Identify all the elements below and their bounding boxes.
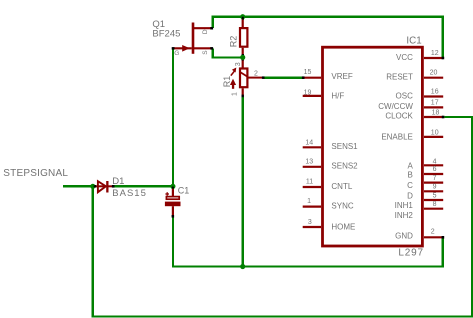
svg-text:2: 2 (254, 70, 258, 77)
svg-text:5: 5 (433, 192, 437, 199)
potentiometer R1 (trimmer) (230, 58, 265, 97)
svg-text:SENS1: SENS1 (331, 142, 358, 151)
svg-text:R2: R2 (229, 36, 239, 48)
diode D1 BAS15 (94, 181, 115, 193)
node junction R2 bottom / R1 top / Q1 source (240, 55, 245, 60)
svg-text:R1: R1 (222, 76, 232, 88)
svg-text:14: 14 (305, 139, 313, 146)
svg-text:1: 1 (307, 198, 311, 205)
pin contact VCC (442, 57, 445, 60)
wire C1 bottom along ground rail up to IC1 GND pin 2 (173, 218, 443, 267)
svg-text:HOME: HOME (331, 222, 355, 231)
wire Q1 source to R2/R1 junction (213, 48, 243, 57)
wire Q1 gate down to STEPSIGNAL node (172, 48, 174, 186)
svg-text:8: 8 (433, 201, 437, 208)
pin contact CLOCK (442, 116, 445, 119)
svg-text:BF245: BF245 (152, 29, 180, 40)
svg-text:CW/CCW: CW/CCW (378, 102, 413, 111)
IC1 left pin numbers (304, 69, 314, 226)
pin contact VREF (302, 76, 305, 79)
svg-text:D: D (407, 191, 413, 200)
svg-text:ENABLE: ENABLE (381, 133, 413, 142)
svg-text:G: G (174, 50, 179, 57)
svg-text:13: 13 (305, 159, 313, 166)
pin contact GND (442, 236, 445, 239)
svg-text:VCC: VCC (396, 53, 413, 62)
IC U1 body (IC1 L297) (323, 47, 423, 246)
IC1 left pin names (331, 72, 358, 231)
svg-text:GND: GND (395, 231, 413, 240)
node junction at C1 top / Q1 gate (170, 184, 175, 189)
svg-text:6: 6 (433, 166, 437, 173)
svg-text:16: 16 (431, 89, 439, 96)
svg-text:IC1: IC1 (406, 36, 421, 47)
node junction ground rail / R1 pin 1 (240, 264, 245, 269)
svg-text:3: 3 (308, 219, 312, 226)
svg-text:CLOCK: CLOCK (385, 111, 413, 120)
svg-text:1: 1 (231, 92, 238, 96)
IC1 right pin names (378, 53, 413, 240)
svg-text:OSC: OSC (396, 92, 414, 101)
svg-text:18: 18 (432, 110, 440, 117)
svg-text:SENS2: SENS2 (331, 162, 358, 171)
svg-text:SYNC: SYNC (331, 202, 353, 211)
wire R1 pin 1 down to ground rail (242, 96, 244, 266)
wire STEPSIGNAL to D1 anode (63, 185, 95, 187)
svg-text:L297: L297 (398, 248, 423, 259)
svg-text:10: 10 (431, 129, 439, 136)
svg-text:3: 3 (235, 62, 242, 66)
svg-text:15: 15 (304, 69, 312, 76)
svg-text:B: B (408, 171, 413, 180)
svg-text:D1: D1 (112, 176, 124, 187)
wire D1 cathode to node at C1 top (114, 185, 173, 187)
svg-text:11: 11 (306, 179, 313, 186)
IC1 right pin stubs: VCC 12, RESET 20, OSC 16, CW/CCW 17, CLOCK 18, ENABLE 10, A 4, B 6, C 7, D 9, INH1 5, INH2 8, GND 2 (424, 58, 443, 237)
svg-text:D: D (202, 29, 209, 34)
capacitor C1 (polarized) (165, 188, 181, 218)
wire Q1 drain to top rail to IC1 VCC pin 12 (213, 17, 443, 58)
svg-text:12: 12 (431, 50, 439, 57)
IC1 right pin numbers (430, 50, 440, 236)
svg-text:BAS15: BAS15 (112, 188, 147, 199)
wire R1 wiper pin 2 to IC1 VREF pin 15 (264, 77, 303, 79)
svg-text:STEPSIGNAL: STEPSIGNAL (3, 168, 68, 179)
svg-text:4: 4 (433, 158, 437, 165)
IC1 left pin stubs: VREF 15, H/F 19, SENS1 14, SENS2 13, CNTL 11, SYNC 1, HOME 3 (303, 78, 321, 227)
svg-text:CNTL: CNTL (331, 182, 352, 191)
resistor R2 (240, 17, 247, 57)
svg-text:7: 7 (433, 175, 437, 182)
svg-text:20: 20 (430, 70, 438, 77)
svg-text:VREF: VREF (331, 72, 352, 81)
svg-text:17: 17 (431, 99, 439, 106)
svg-text:H/F: H/F (331, 91, 344, 100)
svg-text:C1: C1 (178, 186, 190, 196)
node junction at top rail / R2 (240, 14, 245, 19)
svg-text:INH2: INH2 (395, 211, 414, 220)
svg-text:S: S (202, 50, 209, 55)
transistor Q1 BF245 (JFET) (172, 23, 213, 54)
svg-text:A: A (408, 161, 414, 170)
svg-text:RESET: RESET (386, 72, 413, 81)
node junction STEPSIGNAL (90, 184, 95, 189)
svg-text:9: 9 (433, 184, 437, 191)
svg-text:INH1: INH1 (395, 201, 414, 210)
svg-text:2: 2 (431, 229, 435, 236)
svg-text:19: 19 (304, 89, 312, 96)
svg-text:C: C (407, 181, 413, 190)
wire outer loop from STEPSIGNAL node down, along bottom and right edge to IC1 CLOCK pin 18 (93, 117, 472, 317)
